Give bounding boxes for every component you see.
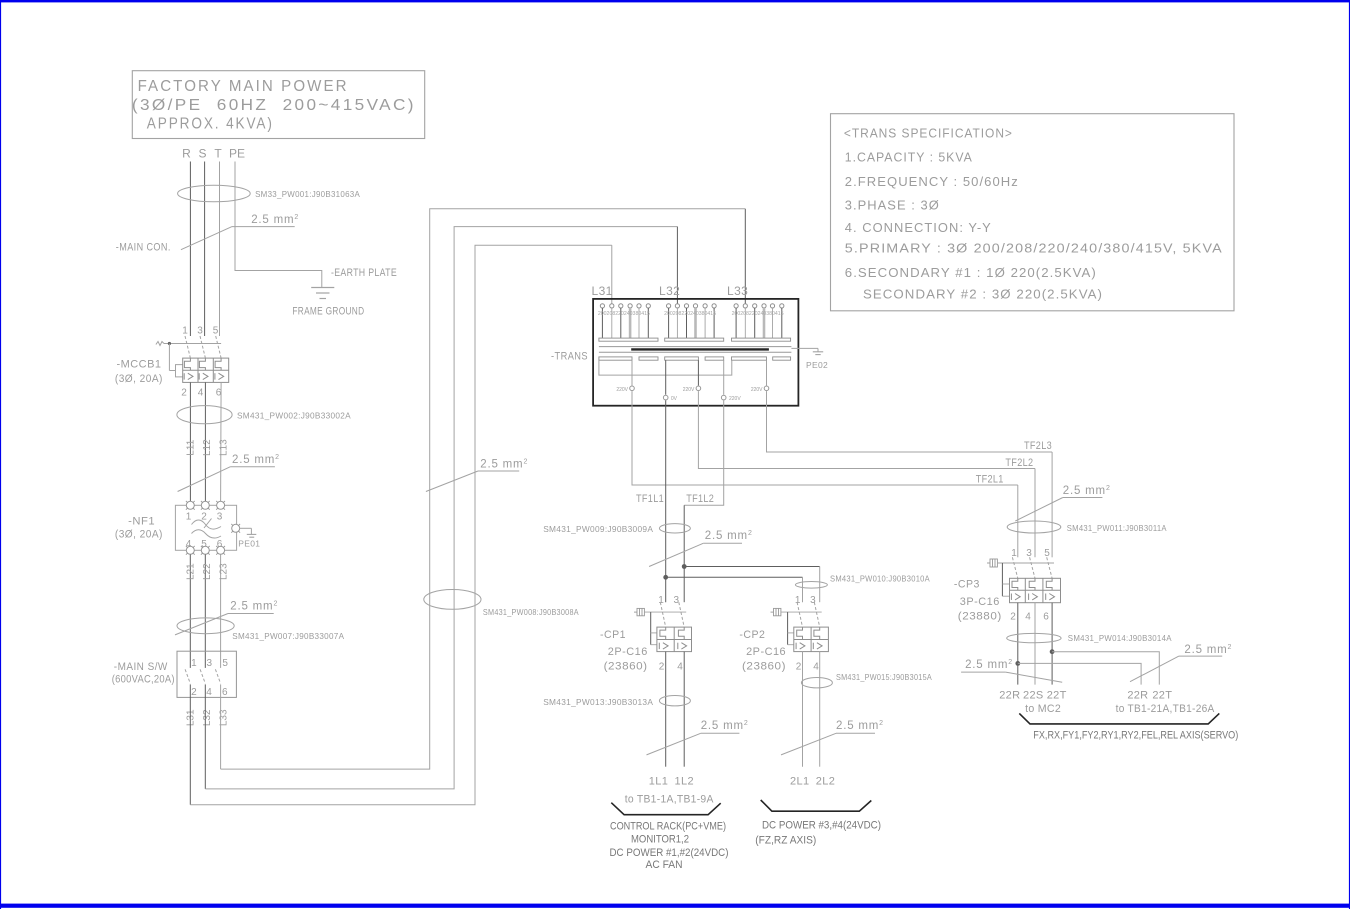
svg-text:2.FREQUENCY : 50/60Hz: 2.FREQUENCY : 50/60Hz <box>845 175 1019 189</box>
svg-text:2.5 mm2: 2.5 mm2 <box>232 454 280 466</box>
page border right (blue) <box>1349 0 1350 909</box>
ground PE02 <box>791 348 823 354</box>
svg-text:L33: L33 <box>727 284 748 298</box>
svg-text:6: 6 <box>1043 612 1049 623</box>
wire TF2L3 drop <box>1051 452 1053 557</box>
svg-text:2: 2 <box>796 662 802 673</box>
wire branch to CP2 pin3 <box>684 566 820 568</box>
title box FACTORY MAIN POWER <box>132 71 425 139</box>
cable marker SM431_PW010 <box>795 582 827 589</box>
cable marker SM431_PW015 <box>801 678 832 688</box>
svg-text:4: 4 <box>186 539 192 550</box>
wire TF1L2 <box>683 505 685 602</box>
wire branch to CP2 pin1 <box>666 576 803 578</box>
svg-text:22S: 22S <box>1023 689 1043 701</box>
svg-text:(3Ø, 20A): (3Ø, 20A) <box>115 529 163 541</box>
wire L13 <box>220 382 223 501</box>
svg-text:220V: 220V <box>683 387 695 393</box>
cable marker SM431_PW011 <box>1007 521 1061 533</box>
cable marker SM431_PW008 <box>424 590 481 610</box>
breaker CP2 hatch (motor linkage) <box>771 608 781 615</box>
svg-text:3: 3 <box>207 658 213 669</box>
svg-text:220V: 220V <box>729 396 741 402</box>
wire TF2L1 drop <box>1017 485 1019 557</box>
wire gauge label 2.5 mm2 <box>426 459 528 492</box>
terminal 220V c <box>721 395 726 400</box>
wire to 220V terminal c <box>723 360 725 395</box>
ground PE01 <box>240 528 257 537</box>
terminal 0V <box>663 395 668 400</box>
svg-text:4: 4 <box>198 388 204 399</box>
transformer tap voltage labels <box>598 311 784 317</box>
svg-text:2: 2 <box>659 662 665 673</box>
trans specification note box <box>831 114 1235 311</box>
svg-text:(600VAC,20A): (600VAC,20A) <box>112 674 175 686</box>
wire L23 <box>220 555 222 668</box>
page border bottom (blue) <box>0 904 1350 908</box>
svg-text:-CP1: -CP1 <box>600 629 626 641</box>
svg-text:L31: L31 <box>186 709 197 726</box>
svg-text:2.5 mm2: 2.5 mm2 <box>251 214 299 226</box>
svg-text:0V: 0V <box>671 396 678 402</box>
svg-text:DC POWER #3,#4(24VDC): DC POWER #3,#4(24VDC) <box>762 820 881 832</box>
svg-text:SM431_PW013:J90B3013A: SM431_PW013:J90B3013A <box>543 697 653 707</box>
svg-text:22T: 22T <box>1047 689 1067 701</box>
svg-text:TF2L3: TF2L3 <box>1024 440 1052 452</box>
svg-text:3.PHASE : 3Ø: 3.PHASE : 3Ø <box>845 199 940 213</box>
svg-text:1: 1 <box>182 326 188 337</box>
cable marker SM431_PW009 <box>659 524 690 533</box>
svg-text:5.PRIMARY : 3Ø 200/208/220/240: 5.PRIMARY : 3Ø 200/208/220/240/380/415V,… <box>845 242 1223 256</box>
breaker CP3 hatch (motor linkage) <box>987 559 997 567</box>
svg-text:-NF1: -NF1 <box>128 516 155 528</box>
svg-text:3: 3 <box>217 512 223 523</box>
svg-text:to TB1-21A,TB1-26A: to TB1-21A,TB1-26A <box>1116 703 1215 715</box>
bracket CP1 loads <box>611 803 720 815</box>
junction 22R branch <box>1015 661 1020 666</box>
svg-text:2P-C16: 2P-C16 <box>746 646 786 658</box>
svg-text:SM431_PW009:J90B3009A: SM431_PW009:J90B3009A <box>543 524 653 534</box>
svg-text:APPROX. 4KVA): APPROX. 4KVA) <box>147 116 274 133</box>
svg-text:SM431_PW014:J90B3014A: SM431_PW014:J90B3014A <box>1068 633 1172 643</box>
page border top (blue) <box>0 0 1350 2</box>
junction 22T branch <box>1050 649 1055 654</box>
transformer primary windings <box>599 338 791 341</box>
transformer core <box>599 347 792 353</box>
svg-text:2.5 mm2: 2.5 mm2 <box>1184 644 1232 656</box>
breaker CP2 body <box>781 602 829 651</box>
svg-text:L13: L13 <box>219 439 230 456</box>
svg-text:-CP2: -CP2 <box>739 629 765 641</box>
wire to 0V terminal <box>665 360 667 395</box>
svg-text:(3Ø, 20A): (3Ø, 20A) <box>115 373 163 385</box>
wire TF2L2 <box>698 391 1035 468</box>
wire L33 routing <box>221 209 746 769</box>
svg-text:-TRANS: -TRANS <box>551 351 588 363</box>
wire gauge label 2.5 mm2 <box>647 720 749 755</box>
wire L22 <box>204 555 206 668</box>
svg-text:2.5 mm2: 2.5 mm2 <box>230 601 278 613</box>
terminal 220V b <box>696 386 701 391</box>
svg-text:2.5 mm2: 2.5 mm2 <box>965 659 1013 671</box>
breaker CP1 hatch (motor linkage) <box>634 608 644 615</box>
wire L31 drop to trans <box>611 245 613 304</box>
svg-text:22T: 22T <box>1152 689 1172 701</box>
svg-text:220V: 220V <box>751 387 763 393</box>
svg-text:200208220240380415: 200208220240380415 <box>598 311 650 317</box>
svg-text:TF1L1: TF1L1 <box>636 493 664 505</box>
svg-text:1: 1 <box>186 512 192 523</box>
svg-text:1.CAPACITY : 5KVA: 1.CAPACITY : 5KVA <box>845 151 973 165</box>
svg-text:2: 2 <box>201 512 207 523</box>
svg-text:-EARTH PLATE: -EARTH PLATE <box>331 267 397 279</box>
svg-text:1: 1 <box>1011 548 1017 559</box>
svg-text:6: 6 <box>217 539 223 550</box>
svg-text:FRAME GROUND: FRAME GROUND <box>292 306 364 318</box>
wire L33 vertical <box>220 684 222 769</box>
svg-text:CONTROL RACK(PC+VME): CONTROL RACK(PC+VME) <box>610 821 726 833</box>
svg-text:to MC2: to MC2 <box>1025 703 1061 715</box>
wire 2L1 <box>802 652 804 767</box>
bracket CP2 loads <box>761 800 872 811</box>
svg-text:(23860): (23860) <box>742 661 786 673</box>
wire L32 routing <box>205 227 677 789</box>
svg-text:SECONDARY #2 : 3Ø 220(2.5KVA): SECONDARY #2 : 3Ø 220(2.5KVA) <box>863 288 1103 302</box>
svg-text:L31: L31 <box>592 284 613 298</box>
svg-text:2.5 mm2: 2.5 mm2 <box>480 459 528 471</box>
junction TF1L2 branch <box>682 564 687 569</box>
wire L33 drop to trans <box>744 209 746 304</box>
wire L32 drop to trans <box>676 227 678 304</box>
wire TF1L1 <box>665 400 667 602</box>
svg-text:2P-C16: 2P-C16 <box>608 646 648 658</box>
svg-text:220V: 220V <box>616 387 628 393</box>
bracket CP3 loads <box>1019 713 1219 724</box>
wire L11 <box>189 382 191 501</box>
wire 22R <box>1017 603 1019 685</box>
svg-text:2.5 mm2: 2.5 mm2 <box>701 720 749 732</box>
cable marker SM33_PW001 <box>178 185 251 202</box>
svg-text:L12: L12 <box>202 439 213 456</box>
svg-text:-MCCB1: -MCCB1 <box>117 359 162 371</box>
svg-text:SM431_PW011:J90B3011A: SM431_PW011:J90B3011A <box>1067 523 1167 533</box>
svg-text:-CP3: -CP3 <box>954 579 980 591</box>
wire 22T <box>1051 603 1053 685</box>
wire secondary neutral link <box>599 360 732 375</box>
svg-text:R: R <box>182 147 191 161</box>
svg-text:2: 2 <box>181 388 187 399</box>
terminal 220V a <box>630 386 635 391</box>
svg-text:SM431_PW002:J90B33002A: SM431_PW002:J90B33002A <box>237 411 351 421</box>
wire gauge label 2.5 mm2 <box>1130 644 1232 682</box>
wire gauge label 2.5 mm2 left of CP3 outputs <box>961 659 1062 682</box>
ground FRAME GROUND (earth plate) <box>311 288 334 299</box>
svg-text:FACTORY MAIN POWER: FACTORY MAIN POWER <box>138 78 349 95</box>
svg-text:6.SECONDARY #1 : 1Ø 220(2.5KVA: 6.SECONDARY #1 : 1Ø 220(2.5KVA) <box>845 266 1097 280</box>
svg-text:4: 4 <box>1025 612 1031 623</box>
svg-text:SM431_PW007:J90B33007A: SM431_PW007:J90B33007A <box>232 631 344 641</box>
svg-text:2L1: 2L1 <box>790 776 810 788</box>
svg-text:PE02: PE02 <box>806 360 828 370</box>
transformer secondary windings <box>599 357 791 360</box>
svg-text:SM431_PW008:J90B3008A: SM431_PW008:J90B3008A <box>483 607 579 617</box>
svg-text:L32: L32 <box>659 284 680 298</box>
svg-text:4: 4 <box>206 687 212 698</box>
svg-text:2L2: 2L2 <box>816 776 836 788</box>
svg-text:-MAIN CON.: -MAIN CON. <box>116 241 171 253</box>
wire to 220V terminal b <box>697 360 699 385</box>
wire L31 vertical <box>189 684 191 804</box>
svg-text:TF2L2: TF2L2 <box>1005 457 1033 469</box>
wire L31 routing <box>190 245 612 805</box>
wire to 220V terminal a <box>631 360 633 385</box>
wire gauge label 2.5 mm2 <box>178 454 280 492</box>
svg-text:1L2: 1L2 <box>675 776 695 788</box>
wire TF2L1 <box>632 391 1018 485</box>
svg-text:SM431_PW010:J90B3010A: SM431_PW010:J90B3010A <box>830 574 930 584</box>
wire TF1L2 upper <box>684 400 724 505</box>
transformer primary tap terminals <box>600 304 784 338</box>
svg-text:3: 3 <box>197 326 203 337</box>
svg-text:(23880): (23880) <box>958 611 1002 623</box>
svg-text:2.5 mm2: 2.5 mm2 <box>836 720 884 732</box>
page border left (blue) <box>0 0 1 909</box>
wire T phase <box>219 162 221 337</box>
cable marker SM431_PW013 <box>659 696 690 706</box>
svg-text:5: 5 <box>213 326 219 337</box>
svg-text:L22: L22 <box>202 563 213 580</box>
wire branch 22R to TB1 <box>1018 663 1141 684</box>
wire TF2L2 drop <box>1034 469 1036 558</box>
wire S phase <box>204 162 206 337</box>
svg-text:4. CONNECTION: Y-Y: 4. CONNECTION: Y-Y <box>845 221 992 235</box>
svg-text:3P-C16: 3P-C16 <box>960 596 1000 608</box>
svg-text:(3Ø/PE 60HZ 200~415VAC): (3Ø/PE 60HZ 200~415VAC) <box>132 97 416 114</box>
wire R phase <box>189 162 191 337</box>
svg-text:L21: L21 <box>186 563 197 580</box>
cable marker SM431_PW002 <box>177 406 232 424</box>
junction TF1L1 branch <box>663 575 668 580</box>
svg-text:FX,RX,FY1,FY2,RY1,RY2,FEL,REL: FX,RX,FY1,FY2,RY1,RY2,FEL,REL AXIS(SERVO… <box>1033 730 1238 742</box>
svg-text:4: 4 <box>813 662 819 673</box>
svg-text:S: S <box>198 147 206 161</box>
svg-text:(FZ,RZ AXIS): (FZ,RZ AXIS) <box>755 835 816 847</box>
cable marker SM431_PW014 <box>1007 633 1061 642</box>
breaker CP3 body <box>997 557 1060 602</box>
wire 2L2 <box>819 652 821 767</box>
svg-text:SM33_PW001:J90B31063A: SM33_PW001:J90B31063A <box>255 189 360 199</box>
svg-text:22R: 22R <box>999 689 1020 701</box>
svg-text:2: 2 <box>191 687 197 698</box>
svg-text:PE01: PE01 <box>238 539 260 549</box>
svg-text:2: 2 <box>1010 612 1016 623</box>
svg-text:L11: L11 <box>186 439 197 455</box>
svg-text:2.5 mm2: 2.5 mm2 <box>705 530 753 542</box>
wire gauge label 2.5 mm2 <box>181 214 299 250</box>
svg-text:(23860): (23860) <box>604 661 648 673</box>
svg-text:MONITOR1,2: MONITOR1,2 <box>631 834 689 846</box>
svg-text:4: 4 <box>677 662 683 673</box>
svg-text:DC POWER #1,#2(24VDC): DC POWER #1,#2(24VDC) <box>610 847 729 859</box>
svg-text:3: 3 <box>1026 548 1032 559</box>
wire gauge label 2.5 mm2 <box>175 601 278 635</box>
terminal 220V d <box>764 386 769 391</box>
svg-text:1: 1 <box>191 658 197 669</box>
wire CP2 pin1 drop <box>802 577 804 602</box>
wire L32 vertical <box>204 684 206 789</box>
svg-text:5: 5 <box>222 658 228 669</box>
wire branch 22T to TB1 <box>1052 652 1159 685</box>
svg-text:SM431_PW015:J90B3015A: SM431_PW015:J90B3015A <box>836 672 932 682</box>
svg-text:<TRANS SPECIFICATION>: <TRANS SPECIFICATION> <box>844 127 1013 141</box>
cable marker SM431_PW007 <box>177 618 234 634</box>
svg-text:L23: L23 <box>219 563 230 580</box>
wire 1L1 <box>665 652 667 767</box>
svg-text:1L1: 1L1 <box>649 776 669 788</box>
transformer TRANS body <box>593 299 798 406</box>
wire L12 <box>204 382 206 501</box>
wire gauge label 2.5 mm2 <box>1015 485 1110 521</box>
wire L21 <box>189 555 191 668</box>
wire PE to earth plate <box>235 162 322 288</box>
svg-text:200208220240380415: 200208220240380415 <box>732 311 784 317</box>
svg-text:200208220240380415: 200208220240380415 <box>664 311 716 317</box>
svg-text:to TB1-1A,TB1-9A: to TB1-1A,TB1-9A <box>625 794 714 806</box>
svg-text:TF2L1: TF2L1 <box>976 474 1004 486</box>
svg-text:-MAIN S/W: -MAIN S/W <box>114 661 168 673</box>
wire to 220V terminal d <box>766 360 768 385</box>
breaker CP1 body <box>644 602 691 651</box>
breaker MCCB1 body <box>156 336 229 382</box>
noise filter NF1 body <box>175 501 240 555</box>
svg-text:3: 3 <box>674 595 680 606</box>
wire TF2L3 <box>767 391 1053 452</box>
svg-text:5: 5 <box>201 539 207 550</box>
wire CP2 pin3 drop <box>819 567 821 603</box>
wire gauge label 2.5 mm2 <box>781 720 884 755</box>
wire 22S <box>1034 603 1036 685</box>
svg-text:TF1L2: TF1L2 <box>686 493 714 505</box>
svg-text:6: 6 <box>222 687 228 698</box>
svg-text:PE: PE <box>229 147 245 161</box>
svg-text:AC FAN: AC FAN <box>646 859 683 871</box>
wire gauge label 2.5 mm2 <box>649 530 753 567</box>
wire 1L2 <box>683 652 685 767</box>
svg-text:2.5 mm2: 2.5 mm2 <box>1063 485 1111 497</box>
svg-text:L32: L32 <box>202 709 213 726</box>
svg-text:T: T <box>214 147 222 161</box>
switch MAIN S/W body <box>177 651 236 697</box>
svg-text:22R: 22R <box>1127 689 1148 701</box>
